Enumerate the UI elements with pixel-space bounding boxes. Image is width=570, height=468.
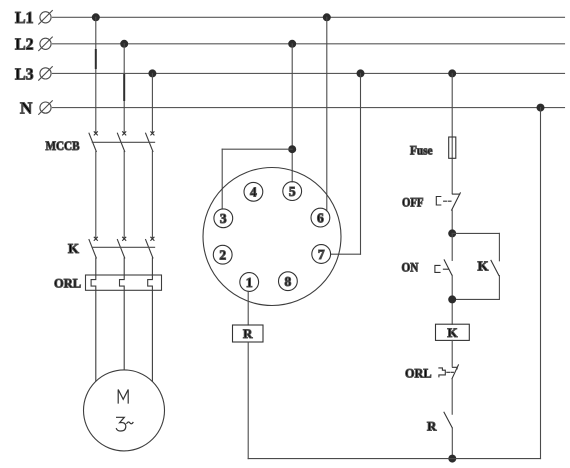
- motor letter M: [118, 390, 128, 404]
- node L1 tap pole1: [92, 13, 100, 21]
- motor M circle: [84, 370, 165, 451]
- socket pin 8: [279, 272, 298, 291]
- svg-text:1: 1: [246, 275, 253, 290]
- terminal symbol L2: [39, 37, 53, 51]
- wire branch to pin 3 vertical: [221, 149, 223, 209]
- ON pushbutton actuator: [435, 265, 440, 272]
- bottom rail wire: [248, 458, 540, 460]
- motor text 3~: [116, 417, 125, 431]
- svg-text:ORL: ORL: [405, 365, 432, 380]
- wire K aux upper: [498, 233, 500, 260]
- MCCB pole3 blade: [146, 133, 153, 151]
- svg-text:R: R: [243, 326, 253, 341]
- svg-text:8: 8: [285, 274, 292, 289]
- R contact blade: [444, 412, 452, 428]
- svg-text:R: R: [427, 419, 437, 434]
- wire MCCB pole2 to K pole2: [123, 152, 125, 239]
- contactor K pole2 blade: [117, 240, 124, 258]
- OFF pushbutton fixed contact bar: [452, 193, 459, 195]
- ON pushbutton blade: [444, 260, 452, 275]
- svg-text:Fuse: Fuse: [410, 144, 433, 158]
- terminal symbol L3: [39, 67, 53, 81]
- wire MCCB pole3 to K pole3: [151, 152, 153, 239]
- contactor K pole2 fixed contact mark: [123, 237, 126, 240]
- socket pin 5: [283, 182, 302, 201]
- wire branch top horizontal: [452, 232, 499, 234]
- svg-text:MCCB: MCCB: [46, 139, 80, 153]
- OFF pushbutton actuator: [436, 197, 441, 206]
- node L2 tap pin5: [288, 40, 296, 48]
- node L2 tap pole2: [120, 40, 128, 48]
- wire artifact thick segment pole2: [123, 75, 125, 100]
- svg-text:K: K: [447, 325, 458, 340]
- socket pin 7: [312, 245, 331, 264]
- socket pin 6: [311, 208, 330, 227]
- node N tap return: [537, 104, 545, 112]
- node branch top: [448, 229, 456, 237]
- contactor K linkage bar: [92, 246, 154, 248]
- svg-text:ORL: ORL: [54, 276, 81, 291]
- node L1 tap pin6: [323, 13, 331, 21]
- node branch bottom: [448, 295, 456, 303]
- terminal symbol L1: [39, 11, 53, 25]
- wire L3 to MCCB pole3: [151, 73, 153, 133]
- wire node to ON contact: [451, 233, 453, 260]
- ORL link dashes: [447, 371, 454, 373]
- wire MCCB pole1 to K pole1: [95, 152, 97, 239]
- node pin3 branch junction: [288, 145, 296, 153]
- svg-text:ON: ON: [402, 261, 419, 275]
- svg-text:L3: L3: [15, 64, 34, 83]
- MCCB pole2 blade: [117, 133, 124, 151]
- return wire to N: [540, 108, 542, 459]
- svg-text:L1: L1: [15, 8, 34, 27]
- wire R contact to bottom rail: [451, 428, 453, 459]
- bus wire L3: [53, 72, 565, 74]
- bus wire N: [53, 107, 565, 109]
- terminal symbol N: [39, 101, 53, 115]
- node L3 tap pin7: [357, 69, 365, 77]
- wire branch to pin 3 horizontal: [222, 148, 292, 150]
- wire pin 1 to relay coil R: [247, 291, 249, 325]
- contactor K pole3 fixed contact mark: [151, 237, 154, 240]
- wire K aux lower: [452, 276, 499, 300]
- fuse F1 body: [449, 137, 456, 158]
- contactor coil K box: [436, 324, 470, 340]
- wire L1 to MCCB pole1: [95, 17, 97, 133]
- socket pin 3: [214, 209, 233, 228]
- ORL release element: [439, 368, 445, 377]
- wire L1 drop to pin 6: [326, 17, 328, 211]
- contactor K pole1 fixed contact mark: [94, 237, 97, 240]
- svg-text:5: 5: [289, 184, 296, 199]
- ORL contact fixed bar: [452, 367, 457, 369]
- OFF actuator link dashes: [444, 200, 451, 202]
- MCCB pole1 blade: [89, 133, 96, 151]
- wire L2 to MCCB pole2: [123, 44, 125, 134]
- wire L3 drop to pin 7 vertical: [360, 73, 362, 254]
- node L3 tap pole3: [148, 69, 156, 77]
- MCCB pole3 fixed contact mark: [151, 132, 154, 135]
- ORL contact blade: [452, 365, 458, 379]
- bus wire L2: [53, 43, 565, 45]
- svg-text:K: K: [478, 259, 489, 274]
- MCCB linkage bar: [92, 141, 154, 143]
- wire L3 to OFF through fuse: [451, 73, 453, 193]
- svg-text:7: 7: [318, 247, 325, 262]
- socket pin 1: [240, 273, 259, 292]
- ORL heater pole1 and wire to motor: [91, 258, 96, 381]
- svg-text:K: K: [68, 242, 79, 257]
- ORL heater pole2 and wire to motor: [120, 258, 125, 370]
- contactor K pole1 blade: [89, 240, 96, 258]
- svg-text:N: N: [20, 98, 33, 117]
- node L3 tap control: [448, 69, 456, 77]
- relay coil R box: [233, 325, 264, 342]
- svg-text:3: 3: [220, 211, 227, 226]
- wire ORL to R contact: [451, 379, 453, 415]
- node bottom rail junction: [448, 455, 456, 463]
- timer socket outline circle: [203, 168, 341, 306]
- wire coil R to bottom rail: [247, 342, 249, 459]
- OFF pushbutton blade: [452, 193, 461, 210]
- svg-text:6: 6: [317, 210, 324, 225]
- contactor K pole3 blade: [146, 240, 153, 258]
- wire pin 7 horizontal: [331, 253, 361, 255]
- wire coil K to ORL contact: [451, 340, 453, 366]
- socket pin 4: [244, 182, 263, 201]
- MCCB pole2 fixed contact mark: [123, 132, 126, 135]
- MCCB pole1 fixed contact mark: [94, 132, 97, 135]
- wire OFF to ON node: [451, 210, 453, 233]
- bus wire L1: [53, 16, 565, 18]
- svg-text:2: 2: [219, 248, 226, 263]
- svg-text:4: 4: [250, 185, 257, 200]
- svg-text:L2: L2: [15, 35, 34, 54]
- wire L2 drop to pin 5: [291, 44, 293, 182]
- overload relay ORL box: [86, 275, 162, 290]
- socket pin 2: [213, 245, 232, 264]
- ORL heater pole3 and wire to motor: [148, 258, 153, 381]
- wire artifact thick segment pole1: [95, 50, 97, 68]
- ON actuator link dash: [443, 268, 448, 270]
- wire ON to coil K: [451, 275, 453, 324]
- svg-text:OFF: OFF: [402, 195, 424, 209]
- K aux contact blade: [491, 260, 499, 275]
